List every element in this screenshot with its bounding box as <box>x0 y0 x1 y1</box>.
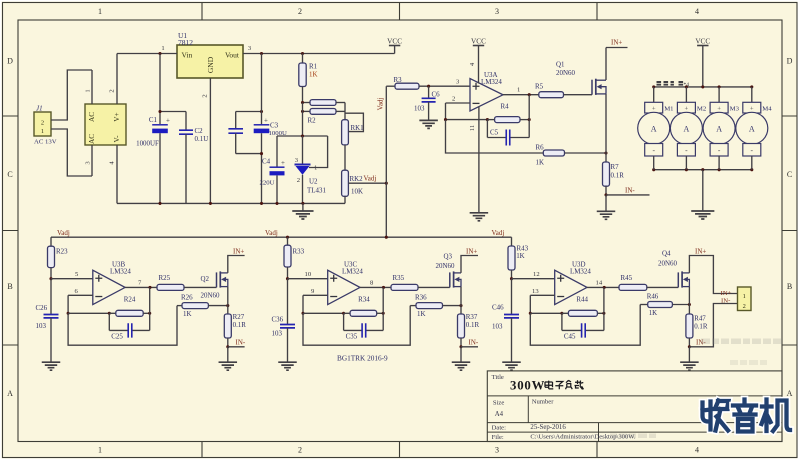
svg-text:R34: R34 <box>358 296 370 304</box>
net stub IN- <box>228 346 245 348</box>
net stub IN- <box>606 194 650 196</box>
net Vadj rail <box>51 236 512 238</box>
resistor R33 <box>287 237 289 245</box>
svg-text:A: A <box>749 124 755 133</box>
svg-text:7812: 7812 <box>178 38 193 47</box>
resistor R36 1K <box>410 305 416 307</box>
svg-text:20N60: 20N60 <box>658 260 677 268</box>
ground (power rail) <box>302 203 304 210</box>
svg-text:R35: R35 <box>393 274 405 282</box>
ground (R7) <box>605 195 607 211</box>
svg-text:C26: C26 <box>36 304 48 312</box>
resistor R7 0.1R <box>605 153 607 162</box>
wire U3C output pin 8 <box>360 286 391 288</box>
RK2 wiper to Vadj <box>348 182 386 184</box>
svg-text:Vin: Vin <box>182 51 193 60</box>
svg-text:+: + <box>166 117 170 125</box>
svg-text:C1: C1 <box>149 116 158 124</box>
svg-text:Q1: Q1 <box>556 61 565 69</box>
wire feedback run <box>530 305 640 346</box>
wire output to R4 right <box>528 95 530 120</box>
wire source <box>460 287 462 306</box>
svg-text:20N60: 20N60 <box>556 69 575 77</box>
svg-text:0.1R: 0.1R <box>694 322 708 330</box>
svg-text:R46: R46 <box>647 293 659 301</box>
capacitor C1 1000UF <box>149 54 170 125</box>
ground (Q3 source) <box>460 347 462 362</box>
svg-text:Date:: Date: <box>492 424 507 431</box>
ground (C46) <box>502 362 521 370</box>
svg-text:Title: Title <box>492 374 504 381</box>
capacitor C36 103 <box>272 279 296 362</box>
wire output to feedback <box>382 287 384 313</box>
svg-text:A: A <box>7 389 13 398</box>
svg-text:File:: File: <box>492 434 504 441</box>
motor/ammeter M1 <box>638 87 674 170</box>
wire R35 to Q3 gate <box>418 286 450 288</box>
svg-text:A: A <box>684 124 690 133</box>
svg-text:14: 14 <box>596 280 603 287</box>
svg-text:IN-: IN- <box>721 298 730 305</box>
svg-text:TL431: TL431 <box>307 187 326 195</box>
net Vadj vertical <box>385 86 387 237</box>
svg-text:25-Sep-2016: 25-Sep-2016 <box>530 424 566 431</box>
svg-text:R5: R5 <box>535 83 544 91</box>
wire output to feedback <box>149 287 151 313</box>
svg-text:R1: R1 <box>309 63 318 71</box>
wire to U3D pin 12 <box>512 278 555 280</box>
svg-text:1: 1 <box>98 446 102 455</box>
ground (C26) <box>42 362 61 370</box>
svg-text:2: 2 <box>298 446 302 455</box>
border row dividers <box>3 116 798 345</box>
capacitor C3 1000U <box>254 54 287 204</box>
svg-text:C3: C3 <box>270 122 279 130</box>
wire feedback run <box>68 306 177 346</box>
wire U3D output pin 14 <box>587 286 619 288</box>
svg-text:1: 1 <box>517 87 520 94</box>
svg-text:Q2: Q2 <box>201 275 210 283</box>
svg-text:103: 103 <box>36 322 47 330</box>
svg-text:1: 1 <box>41 128 44 135</box>
wire J1 pin2 to transformer pin1 <box>51 70 92 120</box>
faint ghost marks <box>610 339 782 439</box>
svg-text:R7: R7 <box>611 163 620 171</box>
resistor R1 1K <box>302 54 304 64</box>
watermark logo <box>703 400 791 432</box>
svg-text:103: 103 <box>492 323 503 331</box>
wire C4/TL431 top <box>277 135 328 137</box>
resistor R2 (parallel pair) <box>303 100 346 125</box>
node C3/C4 pair <box>260 152 263 155</box>
resistor R5 <box>539 92 564 98</box>
svg-text:1K: 1K <box>309 71 318 79</box>
wire output to feedback <box>603 287 605 313</box>
motor bank bottom rail <box>654 169 753 171</box>
svg-text:Vadj: Vadj <box>265 229 278 237</box>
svg-text:RK1: RK1 <box>351 124 365 132</box>
border column dividers <box>202 3 597 458</box>
connector J1 <box>34 105 57 146</box>
svg-text:M3: M3 <box>730 106 740 113</box>
svg-text:1K: 1K <box>417 310 426 318</box>
svg-text:2: 2 <box>202 94 209 97</box>
wire Vout to VCC <box>243 53 395 55</box>
svg-text:IN+: IN+ <box>611 39 622 47</box>
svg-text:3: 3 <box>495 7 499 16</box>
svg-text:4: 4 <box>695 446 699 455</box>
svg-text:LM324: LM324 <box>342 268 363 276</box>
svg-text:1: 1 <box>161 45 164 52</box>
svg-text:C4: C4 <box>262 158 271 166</box>
svg-text:103: 103 <box>414 105 425 113</box>
svg-text:U2: U2 <box>309 178 318 186</box>
potentiometer RK2 10K <box>342 170 364 203</box>
svg-text:D: D <box>7 57 13 66</box>
U3A pin11 to ground <box>478 107 480 213</box>
svg-text:1000UF: 1000UF <box>136 140 159 148</box>
svg-text:10K: 10K <box>351 188 363 196</box>
svg-text:B: B <box>7 282 12 291</box>
power port VCC (regulator output) <box>394 46 396 54</box>
svg-text:2: 2 <box>298 7 302 16</box>
wire U3D pin 13 <box>530 294 554 296</box>
svg-text:R6: R6 <box>536 144 545 152</box>
svg-text:AC: AC <box>88 134 96 144</box>
wire source <box>227 287 229 306</box>
motor/ammeter M4 <box>736 87 772 170</box>
capacitor (input pair) <box>228 110 263 154</box>
svg-text:R2: R2 <box>308 117 317 125</box>
svg-text:0.1R: 0.1R <box>466 321 480 329</box>
svg-text:C2: C2 <box>195 127 204 135</box>
svg-text:12: 12 <box>533 271 540 278</box>
svg-text:R26: R26 <box>181 294 193 302</box>
U3A pin2 wire <box>446 102 471 104</box>
document title 300W dianzi fuzai <box>510 378 584 392</box>
feedback sense wire through R6 <box>446 120 544 153</box>
capacitor C35 <box>344 313 384 340</box>
pin 1 <box>91 70 93 104</box>
svg-text:C46: C46 <box>492 304 504 312</box>
svg-text:Q4: Q4 <box>662 250 671 258</box>
rheostat RK1 <box>342 111 365 171</box>
wire to U3B pin 5 <box>51 278 93 280</box>
svg-text:C5: C5 <box>490 129 499 137</box>
svg-text:+: + <box>750 105 754 112</box>
resistor R45 <box>619 284 647 290</box>
svg-text:Size: Size <box>493 400 504 407</box>
svg-text:C: C <box>7 170 12 179</box>
wire R1/R2 node down <box>302 103 304 137</box>
svg-text:1K: 1K <box>536 159 545 167</box>
wire U3C pin 9 <box>303 294 328 296</box>
svg-text:C35: C35 <box>346 333 358 341</box>
svg-text:R27: R27 <box>233 313 245 321</box>
wire R45 to Q4 gate <box>647 286 679 288</box>
net stub IN- <box>461 346 478 348</box>
svg-text:BG1TRK 2016-9: BG1TRK 2016-9 <box>337 355 388 363</box>
svg-text:R45: R45 <box>621 274 633 282</box>
regulator U1 7812 <box>177 31 243 78</box>
svg-text:11: 11 <box>469 125 476 131</box>
U1 pin2 GND <box>209 78 211 203</box>
svg-text:B: B <box>787 282 792 291</box>
svg-text:C: C <box>787 170 792 179</box>
svg-text:C6: C6 <box>432 91 441 99</box>
svg-text:IN-: IN- <box>625 186 635 194</box>
svg-text:GND: GND <box>206 56 215 73</box>
svg-text:AC 13V: AC 13V <box>34 139 57 146</box>
resistor R27 0.1R <box>227 306 229 314</box>
svg-text:Number: Number <box>532 399 555 406</box>
svg-text:R33: R33 <box>293 248 305 256</box>
svg-text:2: 2 <box>743 303 746 310</box>
svg-text:Vadj: Vadj <box>377 98 385 111</box>
resistor R43 <box>511 237 513 246</box>
svg-text:2: 2 <box>297 177 300 184</box>
wire R5 to Q1 gate <box>564 94 593 96</box>
resistor R3 <box>386 85 395 87</box>
U3A pin1 output wire <box>503 94 539 96</box>
transistor Q1 20N60 <box>592 79 606 95</box>
svg-text:1: 1 <box>98 7 102 16</box>
op-amp U3A LM324 <box>470 79 503 111</box>
op-amp U3B LM324 <box>93 270 125 304</box>
svg-text:V-: V- <box>113 135 121 143</box>
wire R3 to U3A pin3 <box>419 85 470 87</box>
resistor R24 <box>109 312 116 314</box>
resistor R34 <box>344 312 351 314</box>
svg-text:+: + <box>685 105 689 112</box>
svg-text:LM324: LM324 <box>570 268 591 276</box>
ground (Q2 source) <box>227 347 229 362</box>
svg-text:0.1R: 0.1R <box>611 172 625 180</box>
wire U3B pin 6 <box>68 294 93 296</box>
transistor Q4 20N60 <box>678 271 689 287</box>
wire drain to IN+ <box>689 256 737 294</box>
capacitor C46 103 <box>492 279 519 362</box>
wire feedback run <box>303 306 410 346</box>
node junctions on Vin/Vout rail <box>158 52 161 55</box>
wire R25 to Q2 gate <box>184 286 217 288</box>
svg-text:R37: R37 <box>466 313 478 321</box>
wire U3B output pin 7 <box>125 286 157 288</box>
svg-text:20N60: 20N60 <box>201 292 220 300</box>
title block frame <box>487 371 782 442</box>
wire drain to IN+ <box>228 256 245 273</box>
svg-text:VCC: VCC <box>695 37 710 45</box>
svg-text:R36: R36 <box>415 294 427 302</box>
svg-text:A: A <box>651 124 657 133</box>
capacitor C45 <box>562 313 604 340</box>
svg-text:Vadj: Vadj <box>492 229 505 237</box>
svg-text:220U: 220U <box>260 180 275 187</box>
wire source <box>688 287 690 305</box>
svg-text:1: 1 <box>743 293 746 300</box>
svg-text:13: 13 <box>532 288 539 295</box>
resistor R6 1K <box>543 150 564 156</box>
svg-text:C36: C36 <box>272 316 284 324</box>
title block texts <box>492 374 636 441</box>
motor/ammeter M2 <box>670 87 706 170</box>
svg-text:M4: M4 <box>762 106 772 113</box>
transistor Q2 20N60 <box>217 271 228 287</box>
pin 2 <box>116 54 118 105</box>
wire Q1 drain to IN+ <box>605 48 607 81</box>
pin 4 <box>116 145 118 203</box>
wire to U3C pin 10 <box>288 278 328 280</box>
capacitor C26 103 <box>36 279 59 362</box>
svg-text:2: 2 <box>452 96 455 103</box>
svg-text:IN-: IN- <box>469 339 479 347</box>
svg-text:C25: C25 <box>111 333 123 341</box>
svg-text:M2: M2 <box>697 106 706 113</box>
svg-text:IN-: IN- <box>236 339 246 347</box>
capacitor C4 220U <box>260 136 286 203</box>
resistor R26 1K <box>177 305 182 307</box>
svg-text:R4: R4 <box>501 103 510 111</box>
svg-text:V+: V+ <box>113 112 121 121</box>
ground (C36) <box>278 362 297 370</box>
svg-text:A4: A4 <box>495 411 504 418</box>
svg-text:103: 103 <box>272 330 283 338</box>
svg-text:IN+: IN+ <box>695 247 706 255</box>
svg-text:20N60: 20N60 <box>436 262 455 270</box>
TL431 ref loop <box>309 136 328 168</box>
svg-text:R23: R23 <box>56 248 68 256</box>
resistor R47 0.1R <box>688 305 690 315</box>
label above motor bank <box>657 81 690 88</box>
capacitor C5 <box>487 120 529 146</box>
capacitor C25 <box>109 313 149 340</box>
svg-text:2: 2 <box>41 120 44 127</box>
op-amp U3C LM324 <box>328 270 360 304</box>
svg-text:J1: J1 <box>36 105 43 113</box>
U3A pin4 VCC <box>478 46 480 84</box>
resistor R35 <box>391 284 418 290</box>
resistor R4 <box>495 117 520 123</box>
pin 3 <box>91 145 93 176</box>
capacitor C2 0.1U <box>179 112 208 204</box>
svg-text:+: + <box>652 105 656 112</box>
svg-text:3: 3 <box>495 446 499 455</box>
svg-text:A: A <box>787 389 793 398</box>
svg-text:1K: 1K <box>649 309 658 317</box>
svg-text:IN+: IN+ <box>466 247 477 255</box>
feedback node wires (pin2/R4) <box>445 103 447 120</box>
resistor R44 <box>562 312 569 314</box>
resistor R46 1K <box>640 304 648 306</box>
svg-text:A: A <box>716 124 722 133</box>
svg-text:R44: R44 <box>576 296 588 304</box>
svg-text:1K: 1K <box>516 252 525 260</box>
op-amp U3D LM324 <box>555 270 587 304</box>
svg-text:R25: R25 <box>159 274 171 282</box>
svg-text:300W: 300W <box>510 378 545 392</box>
svg-text:Vout: Vout <box>225 51 240 60</box>
svg-text:2: 2 <box>109 89 116 92</box>
ground (Q4 source) <box>688 347 690 362</box>
motor/ammeter M3 <box>703 87 739 170</box>
transistor Q3 20N60 <box>450 271 461 287</box>
svg-text:+: + <box>281 159 285 167</box>
wire Q1 source <box>605 94 607 153</box>
wire C1 bottom <box>159 133 161 203</box>
svg-text:Vadj: Vadj <box>57 229 70 237</box>
svg-text:+: + <box>264 117 268 125</box>
svg-text:Q3: Q3 <box>444 253 453 261</box>
capacitor C6 103 <box>414 86 440 120</box>
ground (C6) <box>419 120 438 128</box>
motor bank top rail <box>654 86 753 88</box>
net stub IN- <box>689 304 737 347</box>
svg-text:1: 1 <box>85 89 92 92</box>
svg-text:10: 10 <box>305 271 312 278</box>
svg-text:IN+: IN+ <box>721 290 732 297</box>
svg-text:0.1R: 0.1R <box>233 321 247 329</box>
svg-text:R24: R24 <box>124 296 136 304</box>
svg-text:1K: 1K <box>183 310 192 318</box>
svg-text:4: 4 <box>695 7 699 16</box>
power ground rail <box>117 202 345 204</box>
svg-text:VCC: VCC <box>387 37 402 45</box>
wire inverting elbow <box>302 295 304 313</box>
wire inverting elbow <box>67 295 69 313</box>
wire Vin <box>117 53 177 55</box>
svg-text:M1: M1 <box>664 106 673 113</box>
wire C1-C2 top <box>160 111 186 113</box>
svg-text:R47: R47 <box>694 315 706 323</box>
wire J1 pin1 to transformer pin3 <box>51 129 92 176</box>
connector (output terminals) <box>738 287 752 311</box>
svg-text:R3: R3 <box>394 76 403 84</box>
resistor R37 0.1R <box>460 306 462 314</box>
svg-text:LM324: LM324 <box>481 78 502 86</box>
svg-text:D: D <box>787 57 793 66</box>
svg-text:Vadj: Vadj <box>364 175 377 183</box>
resistor R23 <box>50 237 52 246</box>
svg-text:RK2: RK2 <box>350 175 364 183</box>
svg-text:AC: AC <box>88 112 96 122</box>
wire inverting elbow <box>529 295 531 313</box>
power port VCC (motor bank) <box>702 46 704 87</box>
shunt reference U2 TL431 <box>295 136 327 203</box>
svg-text:LM324: LM324 <box>110 268 131 276</box>
wire drain to IN+ <box>461 256 478 273</box>
svg-text:VCC: VCC <box>471 37 486 45</box>
svg-text:+: + <box>717 105 721 112</box>
svg-text:IN+: IN+ <box>233 247 244 255</box>
transformer/bridge AC block <box>85 104 126 145</box>
svg-text:C45: C45 <box>564 333 576 341</box>
ground (motor bank) <box>702 170 704 211</box>
svg-text:0.1U: 0.1U <box>195 135 209 143</box>
resistor R25 <box>157 284 184 290</box>
